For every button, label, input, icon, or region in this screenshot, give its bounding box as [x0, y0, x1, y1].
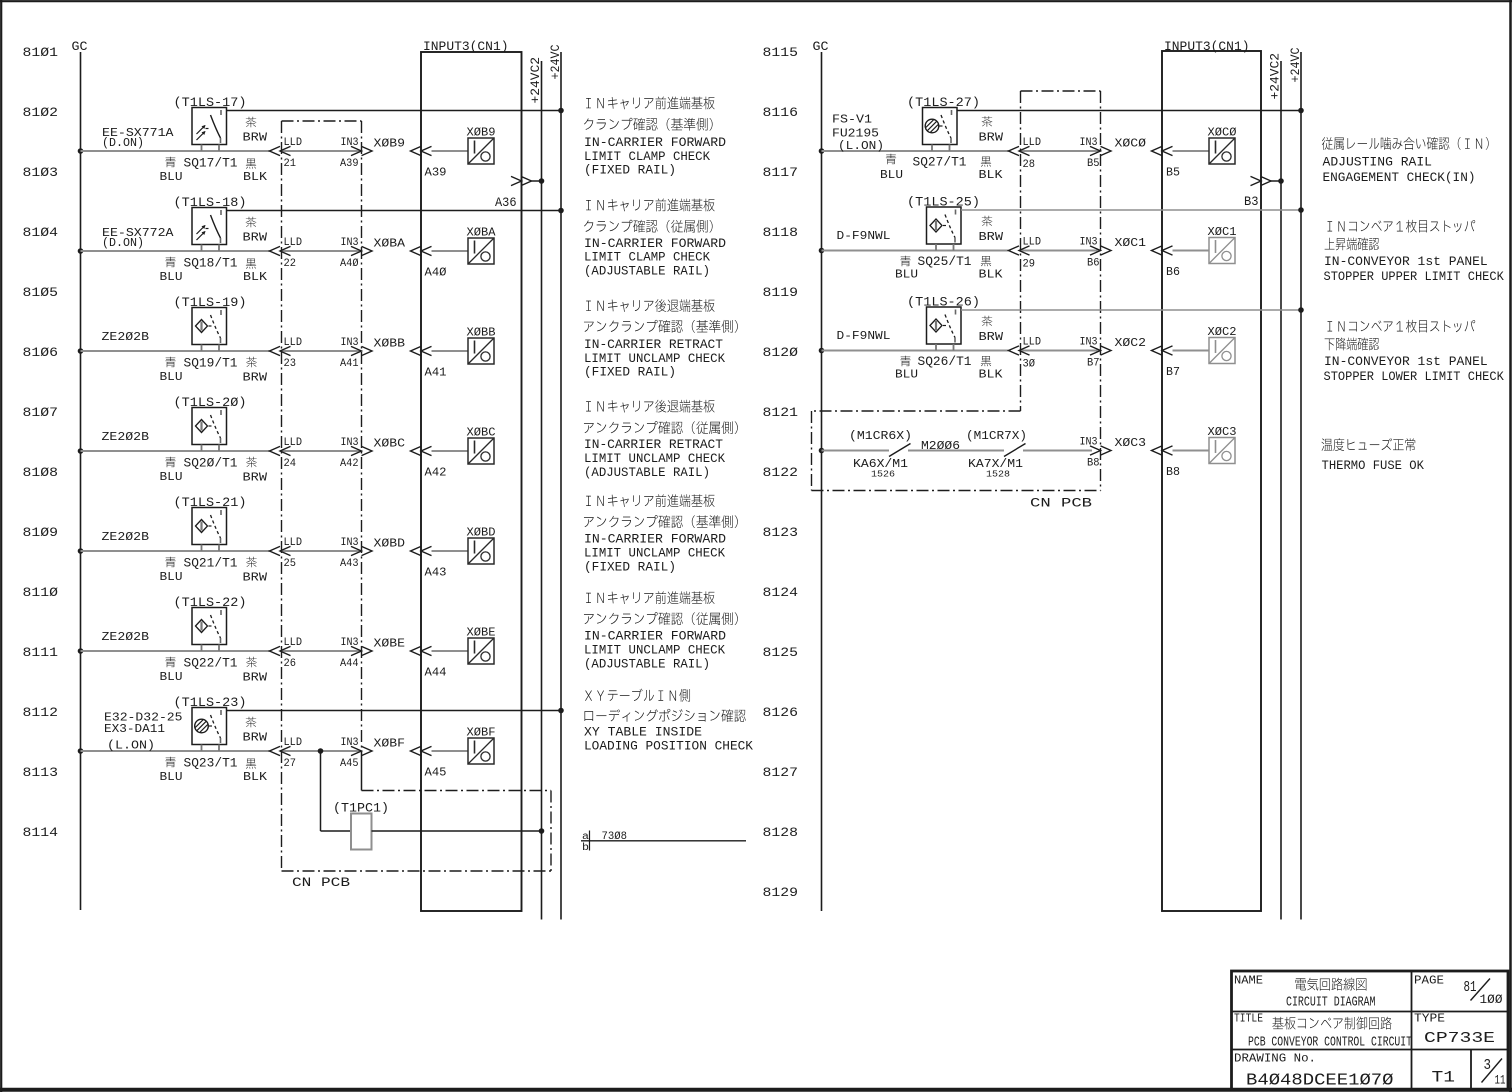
- wire BRW to +24VC row 151: [227, 110, 562, 112]
- svg-text:81Ø3: 81Ø3: [23, 166, 59, 180]
- svg-text:XØCØ: XØCØ: [1115, 137, 1147, 151]
- svg-text:B7: B7: [1166, 365, 1180, 379]
- svg-text:IN3: IN3: [1080, 337, 1098, 349]
- svg-text:THERMO FUSE OK: THERMO FUSE OK: [1322, 458, 1425, 473]
- svg-text:8111: 8111: [23, 646, 59, 660]
- svg-text:BLU: BLU: [160, 370, 183, 384]
- svg-text:BLK: BLK: [979, 268, 1004, 282]
- svg-text:XY TABLE INSIDE: XY TABLE INSIDE: [584, 725, 702, 740]
- svg-text:SQ23/T1: SQ23/T1: [184, 757, 238, 771]
- node A36 entry: [511, 176, 522, 185]
- connector pin LLD 25 row 551: [270, 546, 281, 555]
- svg-text:8117: 8117: [763, 166, 799, 180]
- connector pin IN3 B6 row 250.5: [1090, 246, 1101, 255]
- svg-text:LIMIT UNCLAMP CHECK: LIMIT UNCLAMP CHECK: [584, 643, 725, 658]
- svg-text:CN PCB: CN PCB: [292, 876, 351, 890]
- svg-text:8128: 8128: [763, 826, 799, 840]
- svg-text:STOPPER LOWER LIMIT CHECK: STOPPER LOWER LIMIT CHECK: [1324, 369, 1504, 384]
- svg-text:A41: A41: [425, 366, 447, 380]
- wire BRW to +24VC row 751: [227, 710, 562, 712]
- svg-text:IN-CONVEYOR 1st PANEL: IN-CONVEYOR 1st PANEL: [1324, 254, 1488, 269]
- svg-text:B8: B8: [1087, 458, 1100, 470]
- svg-text:(FIXED RAIL): (FIXED RAIL): [584, 365, 676, 380]
- svg-text:A39: A39: [340, 158, 359, 170]
- svg-text:XØC2: XØC2: [1115, 336, 1147, 350]
- svg-text:81Ø4: 81Ø4: [23, 226, 59, 240]
- svg-text:(FIXED RAIL): (FIXED RAIL): [584, 560, 676, 575]
- svg-text:3Ø: 3Ø: [1023, 359, 1036, 371]
- svg-text:(M1CR7X): (M1CR7X): [966, 429, 1027, 443]
- svg-text:25: 25: [284, 558, 297, 570]
- connector pin IN3 A43 row 551: [351, 546, 362, 555]
- svg-text:IN3: IN3: [341, 237, 359, 249]
- svg-text:IN3: IN3: [341, 337, 359, 349]
- svg-text:ENGAGEMENT CHECK(IN): ENGAGEMENT CHECK(IN): [1323, 170, 1476, 185]
- svg-text:BRW: BRW: [979, 330, 1004, 344]
- svg-text:A42: A42: [340, 458, 359, 470]
- svg-text:A45: A45: [340, 758, 359, 770]
- svg-text:XØBC: XØBC: [374, 437, 406, 451]
- svg-text:GC: GC: [72, 40, 88, 54]
- wire GC to LLD pin row 351: [78, 348, 84, 354]
- svg-text:M2ØØ6: M2ØØ6: [921, 439, 960, 453]
- descriptions right column: [1322, 137, 1489, 150]
- sensor SQ26/T1 (T1LS-26) row 350.5: [819, 348, 825, 354]
- connector pin LLD 30 row 350.5: [1009, 346, 1020, 355]
- svg-text:LLD: LLD: [284, 637, 303, 649]
- svg-text:XØBD: XØBD: [374, 537, 406, 551]
- svg-text:A43: A43: [340, 558, 359, 570]
- wire BRW to +24VC row 250.5: [961, 209, 1301, 211]
- svg-text:A42: A42: [425, 466, 447, 480]
- svg-text:TITLE: TITLE: [1234, 1013, 1263, 1026]
- svg-text:A44: A44: [425, 666, 447, 680]
- connector pin LLD 24 row 451: [270, 446, 281, 455]
- svg-text:1526: 1526: [871, 470, 895, 480]
- svg-text:81Ø6: 81Ø6: [23, 346, 59, 360]
- svg-text:BRW: BRW: [243, 671, 268, 685]
- svg-text:LIMIT UNCLAMP CHECK: LIMIT UNCLAMP CHECK: [584, 546, 725, 561]
- svg-text:BLK: BLK: [979, 368, 1004, 382]
- connector pin IN3 B8 row 8122: [1090, 446, 1101, 455]
- svg-text:LLD: LLD: [1023, 337, 1042, 349]
- connector pin LLD 23 row 351: [270, 346, 281, 355]
- svg-text:81Ø5: 81Ø5: [23, 286, 59, 300]
- svg-text:IN3: IN3: [341, 637, 359, 649]
- thermal fuse T1PC1: [318, 748, 324, 754]
- svg-text:IN3: IN3: [341, 537, 359, 549]
- svg-text:B5: B5: [1087, 158, 1100, 170]
- svg-text:8125: 8125: [763, 646, 799, 660]
- svg-text:8124: 8124: [763, 586, 799, 600]
- svg-text:BLU: BLU: [880, 168, 903, 182]
- svg-text:CN PCB: CN PCB: [1030, 497, 1093, 511]
- svg-text:81Ø7: 81Ø7: [23, 406, 59, 420]
- sensor SQ27/T1 (T1LS-27) row 151: [819, 148, 825, 154]
- svg-text:LIMIT UNCLAMP CHECK: LIMIT UNCLAMP CHECK: [584, 451, 725, 466]
- svg-text:BLU: BLU: [895, 268, 918, 282]
- connector pin LLD 28 row 151: [1009, 146, 1020, 155]
- svg-text:IN3: IN3: [1080, 237, 1098, 249]
- svg-text:SQ22/T1: SQ22/T1: [184, 657, 238, 671]
- connector pin IN3 B5 row 151: [1090, 146, 1101, 155]
- svg-text:IN3: IN3: [341, 137, 359, 149]
- wire GC to LLD pin row 751: [78, 748, 84, 754]
- svg-text:81Ø8: 81Ø8: [23, 466, 59, 480]
- svg-text:A44: A44: [340, 658, 359, 670]
- svg-text:A39: A39: [425, 166, 447, 180]
- svg-text:812Ø: 812Ø: [763, 346, 799, 360]
- svg-text:IN-CARRIER FORWARD: IN-CARRIER FORWARD: [584, 629, 726, 644]
- svg-text:(D.ON): (D.ON): [102, 136, 144, 150]
- svg-text:24: 24: [284, 458, 297, 470]
- svg-text:SQ19/T1: SQ19/T1: [184, 357, 238, 371]
- svg-text:IN3: IN3: [341, 437, 359, 449]
- sensor SQ25/T1 (T1LS-25) row 250.5: [819, 248, 825, 254]
- svg-text:A41: A41: [340, 358, 359, 370]
- svg-text:8116: 8116: [763, 106, 799, 120]
- svg-text:8127: 8127: [763, 766, 799, 780]
- svg-text:8113: 8113: [23, 766, 59, 780]
- svg-text:LLD: LLD: [284, 537, 303, 549]
- svg-text:IN3: IN3: [1080, 137, 1098, 149]
- svg-text:SQ21/T1: SQ21/T1: [184, 557, 238, 571]
- svg-text:B5: B5: [1166, 166, 1180, 180]
- svg-text:SQ17/T1: SQ17/T1: [184, 157, 238, 171]
- svg-text:CP733E: CP733E: [1424, 1030, 1495, 1047]
- svg-text:LLD: LLD: [284, 437, 303, 449]
- svg-text:D-F9NWL: D-F9NWL: [837, 229, 891, 243]
- connector pin IN3 A42 row 451: [351, 446, 362, 455]
- svg-text:BLK: BLK: [243, 270, 268, 284]
- svg-text:NAME: NAME: [1234, 975, 1263, 988]
- svg-text:ZE2Ø2B: ZE2Ø2B: [102, 530, 150, 544]
- connector pin LLD 29 row 250.5: [1009, 246, 1020, 255]
- svg-text:XØBB: XØBB: [374, 337, 406, 351]
- svg-text:BLU: BLU: [895, 368, 918, 382]
- svg-text:(ADJUSTABLE RAIL): (ADJUSTABLE RAIL): [584, 264, 710, 279]
- title block: [1232, 971, 1509, 1090]
- connector pin IN3 A39 row 151: [351, 146, 362, 155]
- svg-text:BLK: BLK: [979, 168, 1004, 182]
- svg-text:PAGE: PAGE: [1414, 975, 1444, 988]
- svg-text:IN-CARRIER RETRACT: IN-CARRIER RETRACT: [584, 337, 723, 352]
- svg-text:BLU: BLU: [160, 170, 183, 184]
- connector pin LLD 26 row 651: [270, 646, 281, 655]
- svg-text:B7: B7: [1087, 358, 1100, 370]
- svg-text:8115: 8115: [763, 46, 799, 60]
- svg-text:23: 23: [284, 358, 297, 370]
- svg-text:11: 11: [1495, 1074, 1506, 1088]
- svg-text:b: b: [582, 842, 589, 854]
- connector pin IN3 A41 row 351: [351, 346, 362, 355]
- connector pin IN3 A44 row 651: [351, 646, 362, 655]
- svg-text:GC: GC: [813, 40, 829, 54]
- svg-text:LLD: LLD: [284, 137, 303, 149]
- svg-text:8112: 8112: [23, 706, 59, 720]
- svg-text:(ADJUSTABLE RAIL): (ADJUSTABLE RAIL): [584, 465, 710, 480]
- svg-text:29: 29: [1023, 259, 1036, 271]
- wire BRW to +24VC row 151: [957, 110, 1301, 112]
- svg-text:BLU: BLU: [160, 770, 183, 784]
- connector pin LLD 27 row 751: [270, 746, 281, 755]
- svg-text:81: 81: [1464, 979, 1477, 996]
- svg-text:PCB CONVEYOR CONTROL CIRCUIT: PCB CONVEYOR CONTROL CIRCUIT: [1248, 1035, 1412, 1051]
- svg-text:28: 28: [1023, 159, 1036, 171]
- svg-text:IN-CARRIER RETRACT: IN-CARRIER RETRACT: [584, 437, 723, 452]
- svg-text:(L.ON): (L.ON): [838, 139, 884, 153]
- svg-text:21: 21: [284, 158, 297, 170]
- svg-text:8119: 8119: [763, 286, 799, 300]
- wire BRW to +24VC row 350.5: [961, 309, 1301, 311]
- svg-text:TYPE: TYPE: [1414, 1013, 1445, 1026]
- svg-text:1528: 1528: [986, 470, 1010, 480]
- connector pin IN3 A45 row 751: [351, 746, 362, 755]
- svg-text:1ØØ: 1ØØ: [1480, 992, 1503, 1007]
- svg-text:BRW: BRW: [243, 131, 268, 145]
- svg-text:T1: T1: [1432, 1069, 1456, 1087]
- wire GC to LLD pin row 651: [78, 648, 84, 654]
- svg-text:(FIXED RAIL): (FIXED RAIL): [584, 163, 676, 178]
- svg-text:ZE2Ø2B: ZE2Ø2B: [102, 430, 150, 444]
- svg-text:81Ø1: 81Ø1: [23, 46, 59, 60]
- svg-text:STOPPER UPPER LIMIT CHECK: STOPPER UPPER LIMIT CHECK: [1324, 269, 1504, 284]
- svg-text:(D.ON): (D.ON): [102, 236, 144, 250]
- node B3 entry: [1251, 176, 1262, 185]
- svg-text:LLD: LLD: [284, 237, 303, 249]
- svg-text:8123: 8123: [763, 526, 799, 540]
- svg-text:27: 27: [284, 758, 297, 770]
- svg-text:BRW: BRW: [243, 371, 268, 385]
- svg-text:B6: B6: [1087, 258, 1100, 270]
- svg-text:CIRCUIT DIAGRAM: CIRCUIT DIAGRAM: [1286, 995, 1376, 1011]
- svg-text:B4Ø48DCEE1Ø7Ø: B4Ø48DCEE1Ø7Ø: [1246, 1072, 1394, 1091]
- svg-text:LLD: LLD: [284, 337, 303, 349]
- svg-text:8129: 8129: [763, 886, 799, 900]
- svg-text:IN-CARRIER FORWARD: IN-CARRIER FORWARD: [584, 532, 726, 547]
- svg-text:ZE2Ø2B: ZE2Ø2B: [102, 630, 150, 644]
- svg-text:8122: 8122: [763, 466, 799, 480]
- svg-text:B3: B3: [1244, 195, 1259, 209]
- svg-text:BLU: BLU: [160, 270, 183, 284]
- svg-text:DRAWING No.: DRAWING No.: [1234, 1052, 1316, 1066]
- wire GC to LLD pin row 251: [78, 248, 84, 254]
- svg-text:BRW: BRW: [243, 231, 268, 245]
- svg-text:B6: B6: [1166, 265, 1180, 279]
- svg-text:A36: A36: [495, 196, 517, 210]
- connector pin IN3 B7 row 350.5: [1090, 346, 1101, 355]
- svg-text:B8: B8: [1166, 465, 1180, 479]
- svg-text:BLK: BLK: [243, 770, 268, 784]
- descriptions left column: [586, 97, 714, 110]
- svg-text:XØC1: XØC1: [1115, 236, 1147, 250]
- svg-text:A4Ø: A4Ø: [340, 258, 359, 270]
- svg-text:XØB9: XØB9: [374, 137, 406, 151]
- svg-text:SQ25/T1: SQ25/T1: [918, 255, 972, 269]
- svg-text:ADJUSTING RAIL: ADJUSTING RAIL: [1323, 154, 1433, 169]
- svg-text:XØBA: XØBA: [374, 237, 406, 251]
- svg-text:IN3: IN3: [341, 737, 359, 749]
- svg-text:81Ø9: 81Ø9: [23, 526, 59, 540]
- svg-text:22: 22: [284, 258, 297, 270]
- CN PCB boundary (right): [1021, 90, 1101, 92]
- svg-text:BLU: BLU: [160, 570, 183, 584]
- svg-text:IN-CONVEYOR 1st PANEL: IN-CONVEYOR 1st PANEL: [1324, 354, 1488, 369]
- svg-text:FS-V1: FS-V1: [832, 113, 872, 127]
- svg-text:LLD: LLD: [1023, 237, 1042, 249]
- svg-text:3: 3: [1484, 1057, 1492, 1074]
- svg-text:BRW: BRW: [979, 131, 1004, 145]
- svg-text:BRW: BRW: [243, 571, 268, 585]
- svg-text:IN3: IN3: [1080, 437, 1098, 449]
- svg-text:SQ27/T1: SQ27/T1: [913, 156, 967, 170]
- connector pin IN3 A40 row 251: [351, 246, 362, 255]
- svg-text:EX3-DA11: EX3-DA11: [104, 722, 165, 736]
- svg-text:BRW: BRW: [243, 731, 268, 745]
- svg-text:SQ26/T1: SQ26/T1: [918, 355, 972, 369]
- svg-text:BLK: BLK: [243, 170, 268, 184]
- svg-text:8114: 8114: [23, 826, 59, 840]
- svg-text:SQ2Ø/T1: SQ2Ø/T1: [184, 457, 238, 471]
- svg-text:A43: A43: [425, 566, 447, 580]
- svg-text:811Ø: 811Ø: [23, 586, 59, 600]
- svg-text:LOADING POSITION CHECK: LOADING POSITION CHECK: [584, 739, 753, 754]
- svg-text:SQ18/T1: SQ18/T1: [184, 257, 238, 271]
- wire GC to LLD pin row 551: [78, 548, 84, 554]
- svg-text:LIMIT CLAMP CHECK: LIMIT CLAMP CHECK: [584, 250, 710, 265]
- svg-text:A45: A45: [425, 766, 447, 780]
- svg-text:8118: 8118: [763, 226, 799, 240]
- connector pin LLD 22 row 251: [270, 246, 281, 255]
- svg-text:BLU: BLU: [160, 470, 183, 484]
- svg-text:8126: 8126: [763, 706, 799, 720]
- svg-text:IN-CARRIER FORWARD: IN-CARRIER FORWARD: [584, 135, 726, 150]
- svg-text:81Ø2: 81Ø2: [23, 106, 59, 120]
- svg-text:LLD: LLD: [1023, 137, 1042, 149]
- svg-text:BRW: BRW: [979, 230, 1004, 244]
- svg-text:XØC3: XØC3: [1115, 436, 1147, 450]
- svg-text:(M1CR6X): (M1CR6X): [849, 429, 912, 443]
- CN PCB boundary (left): [282, 120, 362, 122]
- svg-text:26: 26: [284, 658, 297, 670]
- wire GC to LLD pin row 151: [78, 148, 84, 154]
- svg-text:(L.ON): (L.ON): [107, 739, 155, 753]
- svg-text:BRW: BRW: [243, 471, 268, 485]
- svg-text:8121: 8121: [763, 406, 799, 420]
- svg-text:A4Ø: A4Ø: [425, 266, 447, 280]
- relay contact circuit row 8122: [819, 448, 825, 454]
- wire GC to LLD pin row 451: [78, 448, 84, 454]
- svg-text:XØBF: XØBF: [374, 737, 406, 751]
- svg-text:LLD: LLD: [284, 737, 303, 749]
- svg-text:(ADJUSTABLE RAIL): (ADJUSTABLE RAIL): [584, 657, 710, 672]
- svg-text:D-F9NWL: D-F9NWL: [837, 329, 891, 343]
- connector pin LLD 21 row 151: [270, 146, 281, 155]
- svg-text:BLU: BLU: [160, 670, 183, 684]
- svg-text:ZE2Ø2B: ZE2Ø2B: [102, 330, 150, 344]
- wire BRW to +24VC row 251: [227, 210, 562, 212]
- svg-text:XØBE: XØBE: [374, 637, 406, 651]
